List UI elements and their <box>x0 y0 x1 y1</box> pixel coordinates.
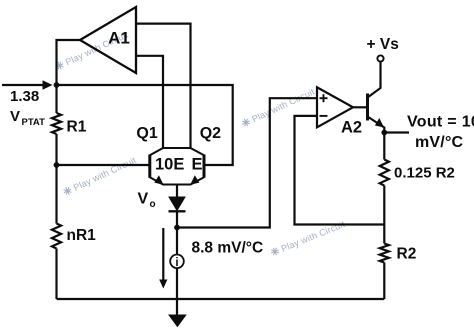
svg-text:nR1: nR1 <box>67 227 97 244</box>
svg-text:Q1: Q1 <box>136 125 157 142</box>
svg-text:V: V <box>10 108 20 125</box>
svg-text:0.125 R2: 0.125 R2 <box>394 165 455 182</box>
svg-text:R1: R1 <box>67 119 87 136</box>
svg-text:PTAT: PTAT <box>22 117 46 128</box>
svg-text:Q2: Q2 <box>200 125 221 142</box>
svg-text:+ Vs: + Vs <box>367 36 399 53</box>
svg-text:V: V <box>138 191 149 208</box>
svg-text:8.8 mV/°C: 8.8 mV/°C <box>192 240 264 257</box>
svg-text:i: i <box>175 257 178 269</box>
svg-text:mV/°C: mV/°C <box>415 134 464 151</box>
svg-text:R2: R2 <box>397 246 417 263</box>
svg-text:o: o <box>150 199 156 210</box>
svg-text:Vout = 100: Vout = 100 <box>407 114 474 131</box>
svg-text:10E: 10E <box>155 156 184 174</box>
svg-text:1.38: 1.38 <box>10 88 39 105</box>
svg-text:A2: A2 <box>341 119 362 137</box>
svg-text:E: E <box>192 156 203 174</box>
